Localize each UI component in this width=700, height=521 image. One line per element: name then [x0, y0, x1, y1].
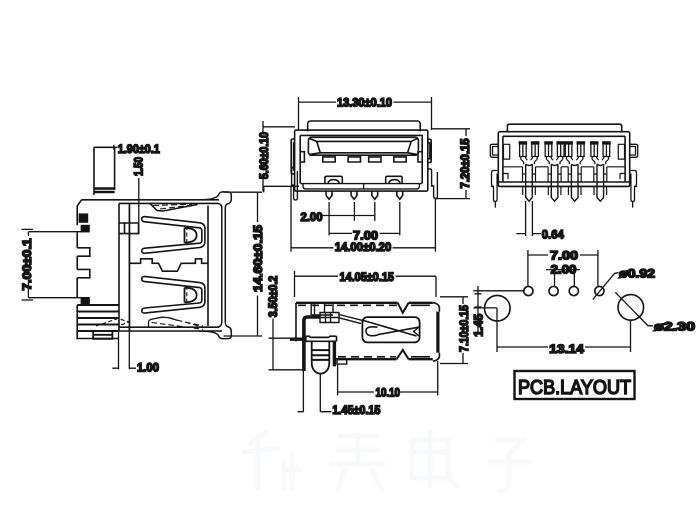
rear left claw	[491, 171, 499, 208]
dim 14.60±0.15	[224, 186, 264, 336]
rear right hook	[630, 144, 638, 157]
plan left edge	[295, 303, 297, 338]
front inner box	[300, 135, 422, 183]
front tongue bevel	[309, 138, 418, 154]
slot box for 1.50 dim	[119, 223, 139, 234]
plan cylinder outer right wall	[333, 341, 336, 366]
block bottom dark wedge	[96, 319, 129, 327]
plan latch notch	[414, 327, 420, 337]
side view right inner wall	[207, 206, 209, 327]
side view top tab	[94, 147, 115, 195]
svg-text:5.60±0.10: 5.60±0.10	[257, 132, 271, 179]
dim 10.10	[338, 361, 438, 396]
rear inner box	[503, 136, 625, 182]
dim 0.64	[516, 201, 541, 236]
plan right corner top	[433, 303, 440, 312]
dim 5.60±0.10	[263, 121, 299, 192]
rear left hook	[490, 144, 498, 157]
front bottom tray	[300, 184, 422, 189]
block pin lower (black)	[81, 297, 90, 305]
pcb small hole 1	[524, 286, 533, 295]
rear inner side slots	[504, 144, 625, 159]
side view top tab hatch	[94, 189, 115, 193]
svg-text:7.10±0.15: 7.10±0.15	[457, 305, 471, 352]
watermark 科美电子	[244, 432, 530, 490]
front pins	[326, 191, 403, 199]
plan top slot lines	[311, 304, 333, 316]
rear outer box	[498, 132, 629, 187]
dim 1.45±0.15	[298, 371, 332, 412]
lower clip dimple D	[185, 288, 197, 303]
block bottom small box	[93, 331, 112, 339]
front top cover plate	[308, 121, 421, 131]
front right claw leg	[428, 169, 438, 198]
plan bent wire thick	[304, 317, 320, 371]
pcb small hole 4	[595, 286, 604, 295]
dim 7.10±0.15	[440, 297, 468, 364]
svg-text:2.00: 2.00	[301, 210, 323, 224]
dim 7.00±0.1	[22, 229, 85, 300]
plan latch plate	[362, 317, 419, 342]
lower spring clip	[142, 276, 205, 313]
svg-text:0.64: 0.64	[542, 228, 564, 242]
plan contact box	[320, 313, 339, 323]
front right hook	[428, 139, 431, 162]
block top black square	[79, 213, 89, 222]
side view bottom edge	[82, 327, 223, 331]
plan right corner bottom	[433, 353, 440, 361]
front outer box	[295, 130, 428, 191]
leader ø0.92	[593, 273, 619, 300]
plan bottom step box	[337, 359, 347, 364]
rear right claw	[630, 171, 638, 208]
pcb big hole left	[485, 295, 511, 321]
svg-text:3.50±0.2: 3.50±0.2	[266, 275, 280, 317]
plan left stub	[295, 338, 297, 342]
svg-text:1.45±0.15: 1.45±0.15	[332, 403, 380, 417]
dim 2.00 pcb	[546, 270, 580, 287]
dim 1.00	[112, 205, 136, 369]
dim 1.50 leader	[138, 178, 140, 234]
dim 3.50±0.2	[269, 319, 304, 371]
front tongue outer	[308, 137, 418, 155]
plan top edge	[296, 302, 433, 304]
svg-text:13.14: 13.14	[549, 342, 584, 356]
svg-text:14.05±0.15: 14.05±0.15	[340, 270, 395, 284]
svg-text:ø0.92: ø0.92	[619, 267, 655, 281]
plan bottom dashes	[338, 356, 396, 358]
dim 1.90±0.1	[94, 145, 117, 150]
dim 14.05±0.15	[295, 271, 437, 297]
upper clip dimple D	[185, 228, 197, 243]
svg-text:7.20±0.15: 7.20±0.15	[458, 138, 472, 188]
plan latch hook	[366, 327, 378, 336]
svg-text:7.00: 7.00	[550, 248, 578, 262]
plan bottom V notch	[397, 350, 409, 359]
rear terminals group 1	[519, 141, 540, 201]
svg-text:10.10: 10.10	[376, 385, 401, 399]
svg-text:2.00: 2.00	[551, 262, 577, 276]
pcb small hole 2	[549, 286, 558, 295]
side view shell left wall	[129, 203, 131, 331]
dim 13.30±0.10	[299, 97, 432, 130]
dim 14.00±0.20	[291, 186, 435, 252]
leader ø2.30	[615, 292, 653, 326]
svg-text:1.45: 1.45	[471, 313, 485, 336]
plan cylinder	[312, 341, 330, 373]
svg-text:ø2.30: ø2.30	[654, 320, 695, 334]
side view left pin block outline	[77, 200, 119, 339]
plan top V notch	[398, 303, 409, 313]
plan right flange bar	[436, 312, 439, 353]
block lower hatched band	[77, 305, 119, 331]
svg-text:1.00: 1.00	[137, 361, 159, 375]
dim 2.00 front	[322, 202, 375, 221]
side view top slanted hatched tab	[150, 203, 198, 211]
front left hook	[291, 139, 294, 174]
front tongue contact squares	[323, 157, 406, 162]
plan latch arm	[339, 315, 364, 324]
plan top dashes	[298, 304, 397, 306]
plan left stub 2	[290, 338, 306, 341]
pcb big hole right	[618, 295, 644, 321]
dim 13.14	[497, 308, 631, 352]
front left claw leg	[291, 167, 297, 200]
middle battlement rail	[130, 259, 209, 271]
dim 7.20±0.15	[432, 129, 470, 199]
block notch tooth 1	[77, 248, 90, 256]
side view right flange	[199, 192, 231, 339]
rear box bottom lines	[498, 182, 629, 186]
svg-text:PCB.LAYOUT: PCB.LAYOUT	[518, 377, 631, 399]
plan latch diagonal	[364, 321, 419, 337]
svg-text:14.00±0.20: 14.00±0.20	[335, 240, 392, 254]
svg-text:1.50: 1.50	[132, 157, 146, 176]
dim 1.45 pcb	[473, 286, 524, 332]
side view bottom dashed lug	[149, 317, 178, 327]
block notch tooth 2	[77, 269, 90, 277]
front side wall slots	[300, 152, 422, 162]
upper spring clip	[142, 217, 205, 254]
block pin upper (black)	[81, 225, 90, 233]
rear top plate	[507, 124, 621, 132]
svg-text:14.60±0.15: 14.60±0.15	[251, 225, 265, 292]
front lower latch tabs	[325, 176, 342, 183]
dim 7.00 pcb	[528, 250, 598, 286]
plan cylinder top cap	[306, 336, 337, 341]
dim 7.00 front	[329, 202, 400, 235]
svg-text:13.30±0.10: 13.30±0.10	[337, 96, 392, 110]
pcb layout label box	[515, 371, 635, 399]
svg-text:1.90±0.1: 1.90±0.1	[118, 142, 160, 156]
svg-text:7.00±0.1: 7.00±0.1	[20, 238, 34, 290]
rear inner bottom ledge	[503, 167, 625, 179]
side view body top edge	[82, 200, 220, 204]
plan bottom edge	[334, 358, 433, 360]
pcb small hole 3	[569, 286, 578, 295]
plan cylinder hatch	[312, 350, 330, 360]
